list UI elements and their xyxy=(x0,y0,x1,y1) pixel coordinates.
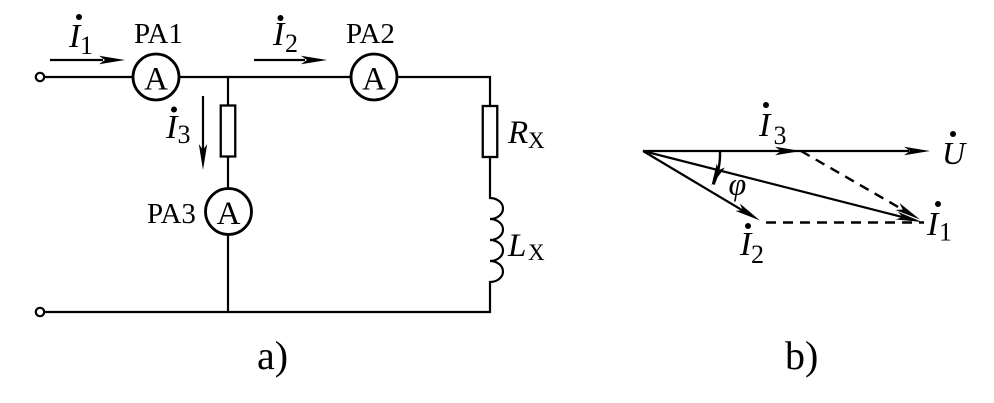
label I3 phasor xyxy=(758,102,787,150)
svg-text:3: 3 xyxy=(178,120,191,149)
vector U shaft xyxy=(643,150,909,152)
label I1 xyxy=(68,14,93,60)
svg-text:PA3: PA3 xyxy=(147,198,196,230)
svg-text:1: 1 xyxy=(939,218,952,247)
resistor RX xyxy=(483,106,498,157)
vector I2 xyxy=(643,151,762,224)
dashed line I2 tip to I1 tip xyxy=(766,221,924,223)
svg-text:A: A xyxy=(217,196,241,232)
svg-text:I: I xyxy=(926,206,940,243)
ammeter PA3 xyxy=(206,189,252,235)
svg-text:I: I xyxy=(758,107,772,144)
wire PA1 to PA2 xyxy=(178,76,352,78)
current arrow I1 xyxy=(50,56,125,65)
label I2 xyxy=(272,15,298,58)
ammeter PA1 xyxy=(133,54,179,100)
node junction middle branch xyxy=(227,77,229,106)
svg-text:a): a) xyxy=(257,333,288,378)
label I3 xyxy=(165,107,191,150)
svg-text:I: I xyxy=(272,16,286,53)
current arrow I2 xyxy=(254,56,327,65)
svg-text:A: A xyxy=(144,62,168,98)
terminal bottom-left xyxy=(36,308,44,316)
vector I1 xyxy=(643,151,923,226)
label RX xyxy=(507,115,545,153)
wire resistor to PA3 xyxy=(227,157,229,189)
dashed line I3 tip to I1 tip xyxy=(801,151,922,223)
svg-text:PA2: PA2 xyxy=(346,18,395,50)
svg-text:1: 1 xyxy=(80,31,93,60)
svg-text:2: 2 xyxy=(285,29,298,58)
ammeter PA2 xyxy=(351,54,397,100)
svg-text:φ: φ xyxy=(729,166,747,202)
label LX xyxy=(507,228,545,265)
right branch down xyxy=(489,76,491,106)
inductor LX xyxy=(490,198,503,282)
svg-text:PA1: PA1 xyxy=(134,18,183,50)
svg-text:A: A xyxy=(362,62,386,98)
wire RX to LX xyxy=(489,157,491,199)
wire LX to bottom corner xyxy=(489,281,491,313)
label U xyxy=(942,131,967,171)
wire PA2 to right corner xyxy=(396,76,491,78)
svg-text:X: X xyxy=(528,128,545,153)
label I2 phasor xyxy=(739,223,764,269)
resistor middle (unlabeled) xyxy=(221,106,236,157)
svg-text:3: 3 xyxy=(774,121,787,150)
label I1 phasor xyxy=(926,201,952,247)
svg-text:2: 2 xyxy=(751,240,764,269)
wire top from terminal to PA1 xyxy=(45,76,134,78)
arrowhead U xyxy=(904,147,930,156)
svg-text:b): b) xyxy=(785,333,818,378)
svg-text:U: U xyxy=(942,135,967,171)
angle phi arc xyxy=(707,151,724,187)
terminal top-left xyxy=(36,73,44,81)
wire PA3 to bottom xyxy=(227,234,229,312)
current arrow I3 xyxy=(199,96,207,170)
arrowhead I3 on U line xyxy=(775,147,801,156)
wire bottom xyxy=(45,311,491,313)
svg-text:X: X xyxy=(528,240,545,265)
svg-text:R: R xyxy=(507,115,528,151)
svg-text:L: L xyxy=(507,228,526,264)
